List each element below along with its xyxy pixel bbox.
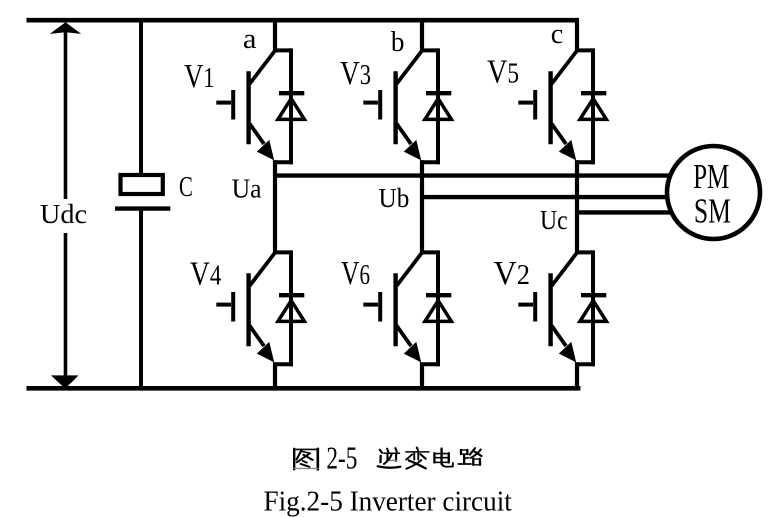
emitter arrowhead xyxy=(404,342,421,363)
motor PMSM circle xyxy=(667,146,760,239)
wire: emitter junction to diode xyxy=(273,160,293,164)
caption CJK: 变 xyxy=(406,448,429,469)
wire: collector junction to diode xyxy=(420,48,438,52)
emitter stroke xyxy=(552,326,567,347)
diode triangle xyxy=(580,99,607,120)
wire: capacitor top lead xyxy=(139,20,143,174)
gate bar xyxy=(231,90,235,120)
wire: diode branch vertical xyxy=(289,250,293,366)
svg-text:Ua: Ua xyxy=(232,173,262,203)
diode cathode bar xyxy=(581,293,606,297)
wire: Udc dimension line upper segment xyxy=(64,32,68,199)
wire: collector junction to diode xyxy=(420,250,438,254)
svg-text:V1: V1 xyxy=(184,58,215,95)
svg-text:Ub: Ub xyxy=(379,183,410,213)
gate lead xyxy=(216,101,231,105)
svg-text:b: b xyxy=(391,26,405,58)
svg-text:2-5: 2-5 xyxy=(326,440,357,476)
wire: diode branch vertical xyxy=(289,48,293,164)
svg-text:Uc: Uc xyxy=(540,205,568,235)
IGBT body bar xyxy=(548,273,552,346)
wire: bottom DC- rail xyxy=(27,386,581,391)
gate lead xyxy=(363,101,378,105)
svg-text:a: a xyxy=(243,23,257,55)
caption CJK: 路 xyxy=(459,448,482,465)
wire: collector junction to diode xyxy=(575,48,593,52)
gate bar xyxy=(533,292,537,322)
caption CJK: 图 xyxy=(294,449,318,470)
gate bar xyxy=(378,90,382,120)
svg-text:V5: V5 xyxy=(487,54,519,91)
wire: diode branch vertical xyxy=(591,48,595,164)
IGBT V4 with antiparallel diode xyxy=(216,250,304,366)
wire: emitter junction to diode xyxy=(273,362,293,366)
capacitor C top plate (box) xyxy=(121,175,163,194)
collector stroke xyxy=(552,253,578,286)
collector stroke xyxy=(552,51,578,84)
emitter arrowhead xyxy=(257,342,274,363)
IGBT V1 with antiparallel diode xyxy=(216,48,304,164)
emitter stroke xyxy=(552,124,567,145)
gate lead xyxy=(518,101,533,105)
IGBT V2 with antiparallel diode xyxy=(518,250,606,366)
svg-text:c: c xyxy=(551,18,564,50)
arrowhead down (Udc) xyxy=(51,375,79,388)
wire: emitter junction to diode xyxy=(420,362,440,366)
wire: phase leg b vertical xyxy=(420,20,424,52)
wire: phase line Ub to motor xyxy=(422,195,668,199)
wire: phase leg a vertical xyxy=(273,20,277,52)
wire: diode branch vertical xyxy=(436,250,440,366)
diode triangle xyxy=(425,99,452,120)
IGBT V6 with antiparallel diode xyxy=(363,250,451,366)
emitter stroke xyxy=(397,124,412,145)
svg-text:V6: V6 xyxy=(341,255,370,292)
wire: emitter junction to diode xyxy=(575,362,595,366)
wire: emitter junction to diode xyxy=(420,160,440,164)
caption CJK: 电 xyxy=(434,448,453,466)
IGBT body bar xyxy=(393,273,397,346)
wire: collector junction to diode xyxy=(273,48,291,52)
gate bar xyxy=(378,292,382,322)
emitter arrowhead xyxy=(559,342,576,363)
IGBT body bar xyxy=(393,71,397,144)
emitter stroke xyxy=(250,124,265,145)
emitter stroke xyxy=(250,326,265,347)
svg-text:Fig.2-5 Inverter circuit: Fig.2-5 Inverter circuit xyxy=(264,487,512,518)
collector stroke xyxy=(397,253,423,286)
IGBT body bar xyxy=(246,273,250,346)
diode cathode bar xyxy=(581,91,606,95)
wire: diode branch vertical xyxy=(436,48,440,164)
wire: collector junction to diode xyxy=(273,250,291,254)
diode cathode bar xyxy=(279,293,304,297)
capacitor C bottom plate xyxy=(115,206,170,210)
diode cathode bar xyxy=(279,91,304,95)
svg-text:C: C xyxy=(179,171,193,203)
IGBT body bar xyxy=(246,71,250,144)
wire: phase leg c vertical xyxy=(575,20,579,52)
gate bar xyxy=(231,292,235,322)
diode cathode bar xyxy=(426,91,451,95)
wire: collector junction to diode xyxy=(575,250,593,254)
wire: emitter junction to diode xyxy=(575,160,595,164)
gate lead xyxy=(518,303,533,307)
diode triangle xyxy=(278,99,305,120)
wire: phase line Ua to motor xyxy=(275,173,671,177)
wire: top DC+ rail xyxy=(27,18,580,23)
arrowhead up (Udc) xyxy=(50,22,81,34)
emitter arrowhead xyxy=(404,140,421,161)
svg-text:V2: V2 xyxy=(494,255,531,292)
collector stroke xyxy=(397,51,423,84)
svg-text:V4: V4 xyxy=(190,255,221,292)
collector stroke xyxy=(250,253,276,286)
wire: Udc dimension line lower segment xyxy=(64,233,68,377)
gate lead xyxy=(216,303,231,307)
diode triangle xyxy=(278,301,305,322)
svg-text:V3: V3 xyxy=(340,55,371,92)
svg-text:SM: SM xyxy=(694,191,731,230)
wire: phase line Uc to motor xyxy=(577,210,671,214)
emitter arrowhead xyxy=(257,140,274,161)
wire: diode branch vertical xyxy=(591,250,595,366)
emitter stroke xyxy=(397,326,412,347)
IGBT V3 with antiparallel diode xyxy=(363,48,451,164)
caption CJK: 逆 xyxy=(378,448,400,468)
svg-text:Udc: Udc xyxy=(40,199,87,229)
diode triangle xyxy=(425,301,452,322)
emitter arrowhead xyxy=(559,140,576,161)
diode triangle xyxy=(580,301,607,322)
IGBT body bar xyxy=(548,71,552,144)
gate bar xyxy=(533,90,537,120)
diode cathode bar xyxy=(426,293,451,297)
IGBT V5 with antiparallel diode xyxy=(518,48,606,164)
collector stroke xyxy=(250,51,276,84)
wire: capacitor bottom lead xyxy=(139,211,143,388)
gate lead xyxy=(363,303,378,307)
